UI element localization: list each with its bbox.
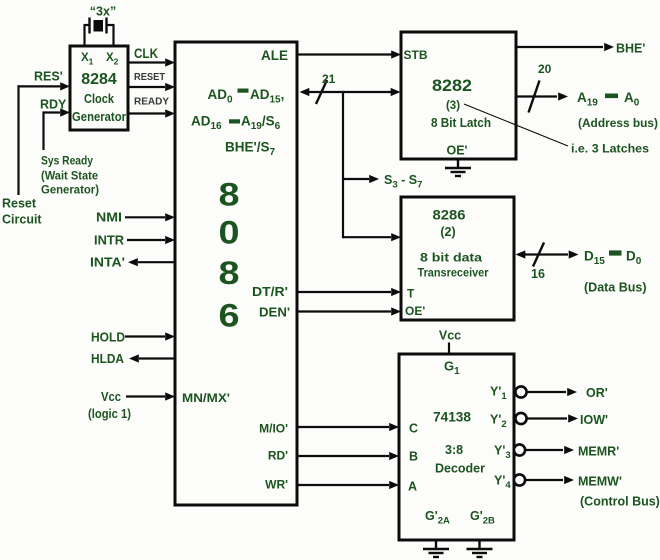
svg-text:INTA': INTA' <box>90 256 125 270</box>
annotation line to i.e. 3 Latches <box>464 104 568 146</box>
svg-text:74138: 74138 <box>433 409 471 425</box>
wire CLK <box>130 61 166 63</box>
wire MEMW' <box>526 476 575 484</box>
wire WR' to A <box>299 481 400 489</box>
svg-text:0: 0 <box>219 215 240 251</box>
wire RES' <box>18 82 71 195</box>
svg-text:Vcc: Vcc <box>439 329 461 343</box>
wire DT/R' to T <box>299 288 402 296</box>
svg-text:IOW': IOW' <box>580 413 608 427</box>
svg-text:A19: A19 <box>577 90 598 109</box>
svg-text:ALE: ALE <box>261 48 288 63</box>
microprocessor 8086 box <box>175 42 297 505</box>
svg-text:20: 20 <box>538 62 552 76</box>
wire crystal to X2 pin <box>112 25 114 46</box>
svg-text:G'2B: G'2B <box>470 509 495 527</box>
transceiver 8286 box <box>401 197 514 320</box>
svg-text:S3 - S7: S3 - S7 <box>384 173 422 191</box>
svg-text:HLDA: HLDA <box>91 352 124 366</box>
svg-text:BHE'/S7: BHE'/S7 <box>225 140 275 159</box>
svg-text:A19/S6: A19/S6 <box>241 114 281 133</box>
svg-text:i.e. 3 Latches: i.e. 3 Latches <box>571 142 649 156</box>
svg-text:(Wait State: (Wait State <box>41 169 98 183</box>
svg-text:8: 8 <box>219 177 240 213</box>
svg-text:Generator): Generator) <box>41 183 99 197</box>
svg-text:A0: A0 <box>624 90 640 109</box>
wire OR' <box>527 388 577 396</box>
svg-text:INTR: INTR <box>94 234 124 248</box>
svg-text:OR': OR' <box>586 386 608 400</box>
svg-text:DT/R': DT/R' <box>252 285 288 299</box>
crystal X1 symbol <box>84 18 115 34</box>
svg-text:AD16: AD16 <box>191 114 222 133</box>
bus slash 21 <box>316 80 327 104</box>
ground of 8282 <box>445 161 471 177</box>
svg-text:8282: 8282 <box>432 77 472 95</box>
svg-text:8 Bit Latch: 8 Bit Latch <box>431 116 491 130</box>
wire branch to 8286 <box>343 233 401 241</box>
wire vertical AD branch <box>342 91 344 238</box>
svg-text:Transreceiver: Transreceiver <box>418 266 489 280</box>
svg-text:Decoder: Decoder <box>435 461 485 476</box>
wire READY <box>130 112 166 114</box>
svg-text:M/IO': M/IO' <box>259 422 288 436</box>
inverter bubble Y'2 <box>515 413 526 424</box>
svg-text:RES': RES' <box>34 70 63 84</box>
svg-text:AD0: AD0 <box>208 87 234 106</box>
svg-text:(Control Bus): (Control Bus) <box>580 495 660 509</box>
inverter bubble Y'1 <box>515 386 526 397</box>
wire DEN' to OE' <box>299 307 402 315</box>
svg-text:WR': WR' <box>265 478 288 492</box>
wire HOLD <box>125 332 175 340</box>
label A19-A0 <box>577 90 640 109</box>
svg-text:8 bit data: 8 bit data <box>420 251 482 265</box>
svg-text:B: B <box>409 450 418 464</box>
wire AD bus 8086 to 8282 <box>300 88 401 96</box>
svg-text:A: A <box>408 480 417 494</box>
svg-text:MEMR': MEMR' <box>578 445 619 459</box>
svg-text:DEN': DEN' <box>259 306 290 320</box>
svg-text:(logic 1): (logic 1) <box>88 407 131 421</box>
ground G'2A <box>423 542 449 558</box>
label AD16-A19/S6 <box>191 114 281 133</box>
svg-text:G1: G1 <box>444 359 460 378</box>
svg-text:16: 16 <box>531 267 545 281</box>
svg-text:Y'1: Y'1 <box>490 385 507 403</box>
svg-text:Y'4: Y'4 <box>494 474 511 492</box>
wire MEMR' <box>526 446 575 454</box>
decoder 74138 box <box>399 354 514 540</box>
svg-text:OE': OE' <box>446 144 467 158</box>
svg-text:21: 21 <box>322 72 336 86</box>
svg-text:Y'3: Y'3 <box>494 444 511 462</box>
inverter bubble Y'3 <box>514 444 525 455</box>
wire branch S3-S7 <box>343 175 379 183</box>
svg-text:T: T <box>407 287 415 301</box>
svg-text:3:8: 3:8 <box>445 443 463 457</box>
inverter bubble Y'4 <box>514 474 525 485</box>
label AD0-AD15 <box>208 87 285 106</box>
svg-text:HOLD: HOLD <box>91 331 125 345</box>
bus slash 16 <box>533 243 544 267</box>
label Vcc (logic 1) <box>88 390 131 421</box>
wire INTA' <box>128 258 175 266</box>
svg-text:G'2A: G'2A <box>425 509 450 527</box>
latch 8282 box <box>401 32 516 159</box>
svg-text:RD': RD' <box>268 449 288 463</box>
svg-text:STB: STB <box>404 48 428 62</box>
wire INTR <box>127 236 175 244</box>
wire Vcc to G1 <box>448 343 450 354</box>
svg-text:6: 6 <box>219 298 240 334</box>
svg-text:D0: D0 <box>626 249 642 268</box>
svg-text:(Address bus): (Address bus) <box>578 116 658 130</box>
svg-text:C: C <box>409 422 418 436</box>
svg-text:BHE': BHE' <box>616 42 645 56</box>
wire RDY <box>43 108 71 150</box>
svg-text:OE': OE' <box>405 304 425 318</box>
svg-text:Reset: Reset <box>2 197 37 211</box>
label Sys Ready (Wait State Generator) <box>41 154 99 197</box>
svg-text:Vcc: Vcc <box>101 390 121 404</box>
wire RESET <box>130 86 166 88</box>
svg-text:D15: D15 <box>584 249 605 268</box>
svg-text:RDY: RDY <box>40 98 67 112</box>
wire M/IO' to C <box>299 423 400 431</box>
svg-text:8286: 8286 <box>433 207 466 223</box>
svg-text:X2: X2 <box>106 52 119 67</box>
svg-text:MN/MX': MN/MX' <box>182 393 230 405</box>
svg-text:RESET: RESET <box>134 71 166 83</box>
svg-text:AD15,: AD15, <box>250 87 284 106</box>
svg-text:8284: 8284 <box>81 71 117 88</box>
svg-text:CLK: CLK <box>134 46 158 61</box>
svg-text:Generator: Generator <box>72 110 126 124</box>
svg-text:(Data Bus): (Data Bus) <box>584 281 647 295</box>
svg-text:Clock: Clock <box>84 91 115 106</box>
wire crystal to X1 pin <box>83 25 85 46</box>
svg-text:MEMW': MEMW' <box>578 475 622 489</box>
wire NMI <box>125 213 175 221</box>
label Reset Circuit <box>2 197 42 227</box>
wire ALE to STB <box>299 50 402 58</box>
svg-text:Circuit: Circuit <box>2 213 42 227</box>
svg-text:8: 8 <box>219 255 240 291</box>
wire address bus A19-A0 <box>518 92 569 100</box>
svg-text:Y'2: Y'2 <box>490 413 507 431</box>
svg-text:(2): (2) <box>440 225 455 239</box>
ground G'2B <box>467 542 493 558</box>
wire RD' to B <box>299 452 400 460</box>
wire IOW' <box>527 414 578 422</box>
svg-text:NMI: NMI <box>96 211 122 225</box>
svg-text:X1: X1 <box>81 52 94 67</box>
label D15-D0 <box>584 249 642 268</box>
svg-text:(3): (3) <box>446 100 460 112</box>
svg-text:“3x”: “3x” <box>90 5 116 19</box>
svg-text:Sys Ready: Sys Ready <box>41 154 93 168</box>
wire BHE' <box>518 43 615 51</box>
wire data bus D15-D0 <box>516 250 579 258</box>
wire HLDA <box>129 354 175 362</box>
wire Vcc to MN/MX' <box>126 392 175 400</box>
svg-text:READY: READY <box>134 96 169 108</box>
bus slash 20 <box>529 81 540 113</box>
clock generator 8284 box <box>70 46 128 130</box>
